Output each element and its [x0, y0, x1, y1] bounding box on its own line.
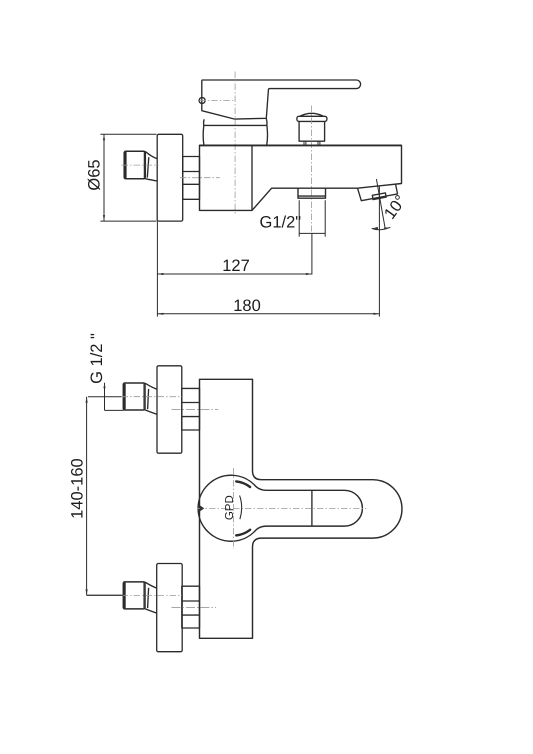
svg-text:GPD: GPD	[224, 495, 236, 520]
lever handle body and arm	[202, 80, 361, 119]
top eccentric taper (front)	[145, 383, 157, 414]
dimension 127 arrows	[157, 273, 312, 275]
G 1/2 text (front)	[88, 333, 106, 384]
dimension 180 line	[157, 313, 379, 315]
cartridge housing edge	[251, 145, 253, 210]
handle centerline vertical (dash-dot)	[234, 72, 236, 216]
bottom nipple thick edge	[123, 583, 125, 609]
body centerline (dash-dot)	[180, 177, 220, 179]
dimension Ø65 text	[85, 159, 103, 190]
nipple thick thread edge	[124, 152, 126, 178]
eccentric taper	[145, 152, 157, 182]
bottom wall flange (front)	[157, 564, 183, 652]
nipple facet line	[143, 152, 145, 178]
GPD logo text	[224, 495, 236, 520]
dimension 140-160 text	[69, 458, 87, 519]
dimension 127 text	[222, 257, 250, 275]
top nipple centerline	[88, 396, 122, 398]
bottom crescent	[236, 530, 250, 536]
10 degree text	[381, 192, 410, 223]
shower outlet port	[298, 188, 326, 198]
dimension 140-160 line	[87, 397, 124, 596]
dimension 127 line	[157, 273, 312, 275]
dimension 180 arrows	[157, 313, 379, 315]
body top edge accent	[200, 144, 402, 146]
diverter / shower-port centerline (dash-dot)	[311, 106, 313, 232]
connector shroud (side view)	[183, 157, 200, 200]
10 degree reference vertical line	[378, 186, 380, 317]
circle vertical centerline (dash-dot)	[233, 468, 235, 549]
svg-text:127: 127	[222, 257, 250, 275]
handle centerline horizontal (dash-dot)	[199, 100, 235, 102]
svg-text:G1/2": G1/2"	[260, 214, 302, 232]
svg-text:G 1/2 ": G 1/2 "	[88, 333, 106, 384]
lever slot division line	[311, 490, 313, 526]
bottom connector shroud (front)	[182, 586, 200, 628]
handle indicator button	[199, 98, 205, 104]
escutcheon dome sides	[203, 125, 267, 144]
handle neck upper	[204, 118, 268, 125]
top hex nipple (front)	[123, 383, 145, 410]
dimension 140-160 arrows	[86, 397, 88, 596]
bottom flange centerline into plate	[172, 607, 217, 609]
lever neck arc	[240, 496, 242, 520]
bottom nipple centerline	[87, 594, 122, 596]
diverter knob feet	[304, 141, 320, 145]
top flange centerline into plate	[172, 409, 219, 411]
nipple centerline (dash-dot)	[122, 164, 159, 166]
hex nipple (side view)	[124, 151, 145, 179]
svg-text:140-160: 140-160	[69, 458, 87, 519]
diverter knob dome cap	[297, 113, 327, 121]
body outer outline: plate + arm	[200, 379, 402, 638]
main body outline	[200, 145, 402, 210]
G 1/2 label leader (front)	[105, 383, 124, 411]
bottom eccentric taper (front)	[145, 582, 157, 613]
bottom nipple facet	[143, 583, 145, 609]
dimension Ø65 extension lines	[100, 134, 156, 221]
top wall flange (front)	[157, 366, 182, 453]
G1/2 port extension lines (top view)	[299, 200, 325, 274]
svg-text:180: 180	[233, 297, 261, 315]
bottom hex nipple (front)	[123, 582, 145, 609]
10 degree arc with arrows	[372, 227, 391, 229]
wall flange (side view)	[157, 134, 183, 221]
dimension 180 text	[233, 297, 261, 315]
spout end cap (tilted)	[358, 184, 398, 200]
top nipple thick edge	[123, 384, 125, 410]
top crescent	[236, 481, 250, 487]
aerator	[372, 193, 386, 200]
circle horizontal centerline (dash-dot)	[197, 507, 366, 509]
10 degree tilted line	[376, 179, 385, 229]
dimension 127 extension line left	[156, 222, 158, 317]
dimension Ø65 arrows	[103, 134, 105, 221]
dimension Ø65 line	[103, 134, 105, 221]
top connector shroud (front)	[182, 388, 200, 430]
diverter knob body	[299, 121, 325, 141]
G1/2 text (top view)	[260, 214, 302, 232]
escutcheon seam line	[204, 124, 267, 126]
keyhole: handle circle + lever slot	[198, 475, 362, 541]
top nipple facet	[143, 384, 145, 410]
temperature wedge	[200, 505, 204, 511]
svg-text:Ø65: Ø65	[85, 159, 103, 190]
